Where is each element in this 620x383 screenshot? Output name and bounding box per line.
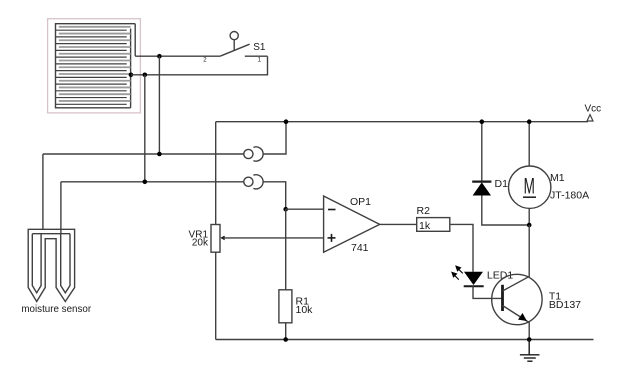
transistor T1 base bar: [501, 285, 504, 311]
transistor T1 collector: [503, 225, 530, 291]
wire op-amp output: [380, 223, 417, 225]
wire VR1 bottom lead: [215, 252, 217, 339]
op-amp minus sign: [328, 209, 336, 211]
svg-text:M: M: [524, 173, 535, 198]
wire R1 bottom lead: [285, 323, 287, 340]
resistor R1 top lead: [285, 209, 287, 290]
switch S1 stem: [233, 40, 235, 51]
wire left probe drop: [42, 154, 44, 230]
svg-text:20k: 20k: [192, 238, 209, 249]
motor M1 circle: [509, 166, 551, 208]
wire sensor top exit: [134, 24, 136, 57]
wire junction down to left probe line: [158, 56, 160, 154]
op-amp plus sign: [328, 234, 336, 242]
svg-text:BD137: BD137: [549, 299, 581, 311]
moisture probe inner contour: [32, 234, 70, 293]
svg-text:JT-180A: JT-180A: [550, 190, 589, 202]
node emitter to ground rail: [527, 337, 532, 342]
Vcc symbol triangle: [587, 115, 593, 121]
wire M1 bottom lead: [528, 208, 530, 225]
moisture sensor pad outer electrode box: [56, 24, 136, 108]
node sensor inner electrode tap: [129, 73, 134, 78]
wire left probe line: [43, 153, 244, 155]
svg-text:M1: M1: [550, 172, 565, 184]
switch S1 actuator circle: [230, 31, 238, 39]
svg-text:OP1: OP1: [350, 196, 371, 208]
potentiometer VR1 wiper arrow: [220, 236, 224, 241]
node rail to connector J1: [284, 119, 289, 124]
diode D1 top lead: [481, 122, 483, 181]
wire Vcc top rail: [216, 121, 588, 123]
node sensor-top junction: [157, 54, 162, 59]
wire sensor inner electrode to switch terminal 1: [131, 56, 268, 75]
wire connector J2 to inverting node: [263, 182, 286, 209]
node left probe line junction: [157, 152, 162, 157]
connector J1 circle: [244, 149, 253, 158]
wire VR1 top lead: [215, 122, 217, 225]
svg-text:R2: R2: [417, 205, 431, 217]
moisture probe outer contour: [28, 229, 74, 301]
op-amp U1 triangle: [324, 196, 380, 252]
node R1 to ground rail: [283, 337, 288, 342]
transistor T1 emitter arrow: [518, 313, 527, 321]
svg-text:10k: 10k: [296, 304, 314, 316]
diode D1 cathode bar: [472, 181, 491, 183]
wire R2 to LED1: [450, 224, 473, 271]
node inner-electrode junction: [143, 73, 148, 78]
diode D1 triangle: [473, 182, 491, 195]
connector J2 circle: [244, 177, 253, 186]
ground symbol: [520, 340, 540, 362]
LED1 triangle: [464, 272, 483, 285]
LED1 emission arrows: [452, 266, 463, 279]
wire right probe line: [61, 181, 244, 183]
LED1 cathode bar: [464, 285, 484, 287]
connector J1 arc: [253, 147, 263, 161]
wire ground rail: [216, 339, 594, 341]
transistor T1 circle: [492, 274, 542, 324]
node inverting input junction: [283, 207, 288, 212]
svg-text:741: 741: [351, 242, 369, 254]
motor M1 underline: [523, 196, 536, 198]
wire D1 bottom lead: [482, 196, 529, 226]
svg-text:S1: S1: [253, 42, 266, 53]
wire connector J1 to top rail: [263, 122, 286, 154]
wire right probe drop: [60, 182, 62, 234]
potentiometer VR1 body: [211, 225, 220, 253]
resistor R1 body: [279, 290, 292, 323]
svg-text:D1: D1: [495, 178, 509, 190]
switch S1 lever: [220, 44, 250, 56]
connector J2 arc: [253, 175, 263, 189]
node rail to D1: [480, 119, 485, 124]
node collector junction: [527, 223, 532, 228]
switch S1 terminal 1 wire: [245, 55, 268, 57]
sensor pad interdigitated fingers: [56, 27, 131, 105]
wire VR1 wiper to op-amp plus: [223, 237, 324, 239]
wire junction down to right probe line: [144, 75, 146, 182]
svg-text:Vcc: Vcc: [585, 104, 602, 115]
resistor R2 body: [417, 218, 450, 232]
wire LED1 to base: [473, 286, 502, 298]
node rail to M1: [527, 119, 532, 124]
node right probe line junction: [143, 180, 148, 185]
motor M1 top lead: [528, 122, 530, 166]
transistor T1 emitter: [503, 306, 530, 340]
wire inverting node to op-amp: [286, 208, 324, 210]
moisture sensor pad pink frame: [48, 19, 141, 113]
svg-text:1k: 1k: [419, 220, 431, 232]
wire sensor top to switch terminal 2: [135, 55, 220, 57]
svg-text:moisture sensor: moisture sensor: [21, 304, 91, 315]
